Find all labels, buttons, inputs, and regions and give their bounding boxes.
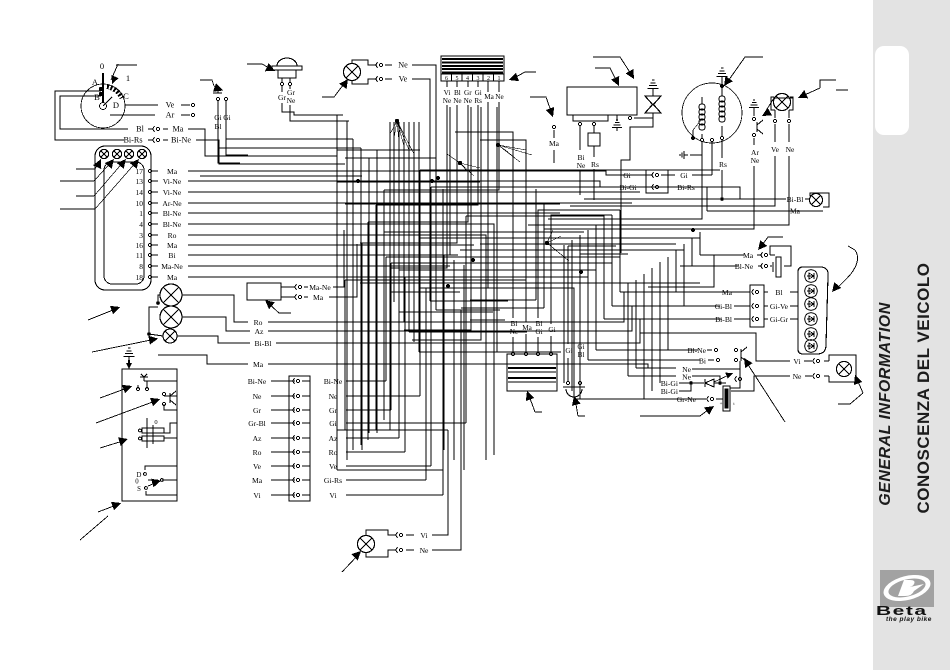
- junction fan node A: [395, 119, 399, 123]
- svg-text:Gr-Bl: Gr-Bl: [248, 419, 266, 428]
- main fuse: [566, 381, 569, 384]
- switch box internal wiring: [147, 381, 158, 389]
- battery: [507, 354, 557, 391]
- svg-text:Gi-Rs: Gi-Rs: [324, 476, 342, 485]
- wire lamp Ve drop: [429, 130, 431, 301]
- connector Gi wires: [711, 142, 713, 175]
- svg-text:Bi: Bi: [168, 251, 175, 260]
- svg-text:S: S: [137, 486, 141, 493]
- main connector drops into mesh: [390, 175, 447, 268]
- svg-text:Bi-Bl: Bi-Bl: [255, 339, 272, 348]
- svg-text:Gi: Gi: [548, 326, 555, 334]
- svg-text:13: 13: [136, 177, 144, 186]
- wire Ar from ignition switch: [110, 114, 155, 116]
- horn callout: [247, 64, 273, 70]
- svg-text:Vi: Vi: [420, 531, 427, 540]
- DOS switch callout: [98, 504, 119, 512]
- svg-text:Vi-Ne: Vi-Ne: [163, 188, 182, 197]
- svg-text:D: D: [113, 100, 119, 110]
- svg-text:Vi-Ne: Vi-Ne: [163, 177, 182, 186]
- svg-text:Ne: Ne: [682, 373, 691, 382]
- svg-text:Vi: Vi: [329, 491, 336, 500]
- wire loop Bi-Rs from ignition switch: [60, 96, 128, 129]
- svg-text:Gi-Ve: Gi-Ve: [770, 302, 789, 311]
- wire Ma from ignition to mesh: [205, 129, 337, 156]
- svg-text:Bi-Bl: Bi-Bl: [787, 195, 804, 204]
- junction fan node C: [496, 143, 500, 147]
- svg-text:Ne: Ne: [751, 156, 760, 165]
- svg-text:Gr: Gr: [329, 406, 337, 415]
- wire Ma to CDI region: [530, 97, 552, 114]
- alternator left terminal drop: [552, 142, 702, 219]
- svg-text:17: 17: [136, 167, 144, 176]
- svg-text:Ne: Ne: [793, 372, 802, 381]
- svg-text:Bi-Ne: Bi-Ne: [171, 136, 191, 145]
- main fuse callout: [575, 398, 578, 416]
- svg-text:Bi: Bi: [699, 357, 706, 366]
- svg-text:Ne: Ne: [786, 145, 795, 154]
- svg-text:Vi: Vi: [793, 357, 800, 366]
- wire lamp Ne drop: [435, 120, 437, 310]
- svg-text:Ne: Ne: [464, 97, 472, 105]
- svg-text:Bi: Bi: [536, 320, 543, 328]
- svg-text:Gi: Gi: [475, 89, 482, 97]
- switch box callout 2: [80, 516, 108, 540]
- wire Az run right: [340, 306, 648, 331]
- svg-text:16: 16: [136, 241, 144, 250]
- resistor callout: [267, 302, 291, 313]
- switch assembly box: [122, 369, 177, 501]
- svg-text:Ma: Ma: [173, 125, 184, 134]
- ignition key switch callout line: [116, 64, 137, 66]
- wire Bl brake to mesh: [218, 112, 361, 148]
- svg-text:Bl: Bl: [454, 89, 461, 97]
- ignition coil: [723, 386, 730, 411]
- svg-text:Bl-Ne: Bl-Ne: [163, 220, 182, 229]
- wire Ma run right: [340, 364, 664, 368]
- svg-text:Ma: Ma: [253, 360, 264, 369]
- main fuse wires: [567, 358, 569, 381]
- flasher wire: [621, 113, 653, 253]
- alternator / generator: [682, 83, 742, 143]
- stop lamp callout: [342, 553, 360, 572]
- front brake switch: [214, 86, 222, 90]
- flasher callout: [593, 57, 633, 77]
- wire Ro run right: [340, 292, 648, 322]
- svg-text:A: A: [92, 77, 99, 87]
- switch assembly ground: [124, 356, 135, 358]
- svg-text:Ma: Ma: [167, 241, 178, 250]
- wire Ve from position lamp: [379, 77, 382, 80]
- turn flasher unit: [645, 96, 661, 105]
- wire riser tops to right: [386, 257, 620, 292]
- passing switch callout: [745, 360, 785, 422]
- svg-text:Gi: Gi: [680, 171, 688, 180]
- svg-text:Ar-Ne: Ar-Ne: [162, 199, 182, 208]
- front turn lamp right: [774, 94, 791, 111]
- cluster wires left: [700, 291, 734, 293]
- svg-text:Bl-Ne: Bl-Ne: [163, 209, 182, 218]
- svg-text:Gi: Gi: [223, 113, 231, 122]
- svg-text:Ve: Ve: [399, 75, 408, 84]
- svg-text:1: 1: [126, 73, 130, 83]
- left connector callout lines: [76, 168, 95, 170]
- front brake switch wires: [217, 101, 219, 112]
- flasher ground: [648, 88, 659, 90]
- svg-text:Vi: Vi: [444, 89, 451, 97]
- fuse on CDI Rs wire: [593, 126, 595, 133]
- lamp stack common wire: [158, 295, 160, 303]
- svg-text:Az: Az: [253, 434, 262, 443]
- svg-text:Gr: Gr: [464, 89, 472, 97]
- svg-text:Gi-Gr: Gi-Gr: [770, 315, 789, 324]
- svg-text:t: t: [733, 401, 735, 406]
- wire Bi-Ne from CDI: [579, 126, 581, 150]
- svg-text:Az: Az: [255, 327, 264, 336]
- position lamp front: [344, 64, 361, 81]
- svg-text:Gi: Gi: [577, 343, 584, 351]
- stop lamp rear: [358, 536, 375, 553]
- svg-text:Ma: Ma: [252, 476, 263, 485]
- flash switch symbol: [162, 392, 165, 395]
- diode: [691, 382, 704, 384]
- svg-text:Bi-Ne: Bi-Ne: [248, 377, 267, 386]
- cluster connector strip: [750, 285, 764, 327]
- headlamp wires: [722, 198, 786, 200]
- headlight hi lamp: [160, 284, 182, 306]
- mesh upper-left staircase: [336, 115, 338, 470]
- headlamp callout: [836, 89, 848, 91]
- wire bundle top node fan verticals: [389, 122, 391, 292]
- left connector callout arrows: [95, 160, 100, 169]
- junction dots: [356, 179, 360, 183]
- svg-text:Gr: Gr: [253, 406, 261, 415]
- wire Bi-Gi left: [612, 186, 617, 188]
- svg-text:1: 1: [139, 209, 143, 218]
- dimmer switch callout: [100, 387, 130, 398]
- wire Ne from position lamp: [379, 63, 382, 66]
- CDI unit box: [567, 87, 637, 115]
- passing switch symbol: [740, 349, 742, 361]
- mesh upper horizontals band: [330, 114, 343, 116]
- resistor wires: [281, 286, 295, 288]
- mesh lower-left verticals: [344, 280, 346, 430]
- mesh right lower horizontals: [596, 349, 668, 351]
- svg-text:Ne: Ne: [453, 97, 461, 105]
- svg-text:Bl: Bl: [511, 320, 518, 328]
- svg-text:Bl: Bl: [136, 125, 144, 134]
- wire Gi brake to mesh: [226, 110, 353, 139]
- main connector callout: [512, 72, 536, 79]
- alternator wires down: [710, 138, 713, 141]
- svg-text:Bl: Bl: [578, 351, 585, 359]
- CDI right terminal: [628, 116, 631, 119]
- alternator node: [691, 136, 695, 140]
- wire battery risers up: [455, 132, 513, 300]
- wire loop Bl from ignition switch: [55, 91, 124, 140]
- svg-text:Rs: Rs: [591, 160, 599, 169]
- svg-text:Bi-Ne: Bi-Ne: [324, 377, 343, 386]
- dimmer switch symbol: [143, 377, 145, 381]
- svg-text:14: 14: [136, 188, 144, 197]
- diode to coil vertical: [730, 361, 740, 388]
- horn: [277, 58, 297, 66]
- wire resistor Ma run: [329, 244, 357, 297]
- svg-text:Ne: Ne: [398, 61, 408, 70]
- mesh right riser bundle: [699, 232, 701, 255]
- svg-text:Ne: Ne: [443, 97, 451, 105]
- svg-text:Ne: Ne: [287, 96, 296, 105]
- alternator coil 2: [721, 88, 723, 96]
- svg-text:Gr: Gr: [278, 93, 286, 102]
- svg-text:Ve: Ve: [329, 462, 338, 471]
- left connector lamps: [99, 149, 108, 158]
- lights switch callout: [100, 440, 126, 448]
- left multi-connector inner: [104, 162, 144, 284]
- svg-text:Ne: Ne: [420, 546, 429, 555]
- svg-text:Ma: Ma: [313, 293, 324, 302]
- svg-text:Ma: Ma: [484, 93, 494, 101]
- front turn lamp callout: [820, 80, 836, 88]
- svg-text:3: 3: [139, 231, 143, 240]
- mesh lower horizontals left: [337, 429, 448, 431]
- svg-text:Gi: Gi: [329, 419, 337, 428]
- main connector pin wires: [446, 81, 448, 87]
- svg-text:Ma: Ma: [743, 251, 754, 260]
- ignition coil callout: [640, 407, 712, 416]
- svg-text:Vi: Vi: [253, 491, 260, 500]
- wire Rs from alternator: [721, 140, 723, 158]
- wire Ve from ignition switch: [125, 104, 158, 106]
- flash switch callout: [96, 400, 158, 423]
- svg-text:+: +: [720, 402, 723, 407]
- svg-text:Bi-Rs: Bi-Rs: [123, 136, 142, 145]
- tail lamp wires left: [640, 333, 790, 361]
- wire bundle from left connector rows: [188, 171, 616, 175]
- lamp stack wires right: [182, 295, 234, 318]
- wire Bi-Ne from ignition to mesh: [215, 140, 345, 164]
- main 6-pin connector block: [441, 56, 504, 74]
- svg-text:18: 18: [136, 273, 144, 282]
- svg-text:Ve: Ve: [166, 101, 175, 110]
- svg-text:Ar: Ar: [166, 111, 175, 120]
- svg-text:Ne: Ne: [495, 93, 503, 101]
- CDI ground: [616, 115, 618, 121]
- instrument cluster callout: [833, 250, 858, 291]
- alternator ground top: [720, 84, 724, 88]
- svg-text:8: 8: [139, 262, 143, 271]
- svg-text:Ma: Ma: [167, 167, 178, 176]
- instrument cluster: [798, 267, 828, 354]
- svg-text:10: 10: [136, 199, 144, 208]
- svg-text:Ve: Ve: [771, 145, 780, 154]
- headlight lo lamp: [160, 306, 182, 328]
- wire switch riser bundle up: [385, 257, 387, 381]
- alternator callout: [726, 57, 763, 84]
- city lamp: [163, 329, 177, 343]
- svg-text:4: 4: [139, 220, 143, 229]
- svg-text:0: 0: [154, 419, 157, 426]
- horn wires down: [281, 86, 283, 92]
- svg-text:Gi: Gi: [535, 328, 542, 336]
- position lamp callout: [322, 80, 347, 97]
- junction fan node B: [458, 161, 462, 165]
- svg-text:Bi-Gi: Bi-Gi: [661, 387, 678, 396]
- junction fan node D: [545, 241, 549, 245]
- svg-text:Ne: Ne: [577, 161, 586, 170]
- svg-text:0: 0: [100, 61, 104, 71]
- svg-text:11: 11: [136, 251, 143, 260]
- lamp stack callouts: [88, 308, 118, 320]
- alternator coil 1: [701, 97, 703, 104]
- regulator callout: [764, 98, 793, 114]
- wire Vi long bottom riser: [442, 430, 444, 495]
- svg-text:Ma: Ma: [549, 139, 560, 148]
- svg-text:Ma-Ne: Ma-Ne: [161, 262, 183, 271]
- battery callout: [528, 393, 535, 412]
- svg-text:Ma-Ne: Ma-Ne: [309, 283, 331, 292]
- svg-text:B: B: [94, 92, 100, 102]
- lights switch cells: [146, 418, 148, 448]
- ignition key switch arrow: [111, 64, 118, 80]
- svg-text:Ro: Ro: [168, 231, 177, 240]
- voltage regulator ground: [749, 107, 759, 109]
- condenser callout: [760, 237, 783, 248]
- wire Gi left: [616, 174, 638, 176]
- condenser wires left: [648, 255, 742, 287]
- svg-text:Ma: Ma: [167, 273, 178, 282]
- svg-text:C: C: [123, 91, 129, 101]
- left multi-connector outer: [95, 146, 151, 290]
- svg-text:Ve: Ve: [253, 462, 262, 471]
- svg-text:Ro: Ro: [253, 448, 262, 457]
- battery wires: [512, 337, 514, 352]
- svg-text:0: 0: [135, 479, 139, 486]
- connector strip left of rows: [289, 376, 310, 501]
- mesh center verticals: [535, 189, 537, 300]
- svg-text:Rs: Rs: [719, 160, 727, 169]
- connector Gi/Bi-Gi box: [646, 170, 668, 193]
- ignition key switch body: [81, 84, 125, 128]
- wire Bi-Bl run right: [340, 319, 656, 343]
- passing switch wires left: [668, 349, 698, 351]
- svg-text:Ne: Ne: [253, 392, 262, 401]
- svg-text:Rs: Rs: [474, 97, 482, 105]
- voltage regulator: [753, 111, 755, 116]
- svg-text:Ro: Ro: [254, 318, 263, 327]
- alternator earth coil symbol: [684, 154, 688, 156]
- wire resistor Ma-Ne run: [335, 230, 344, 287]
- mesh center-right lower horizontals: [470, 299, 536, 301]
- svg-text:Bl: Bl: [775, 288, 782, 297]
- svg-text:Ro: Ro: [329, 448, 338, 457]
- tail lamp callout: [856, 377, 863, 393]
- CDI callout: [595, 68, 618, 84]
- resistor unit box: [247, 283, 281, 300]
